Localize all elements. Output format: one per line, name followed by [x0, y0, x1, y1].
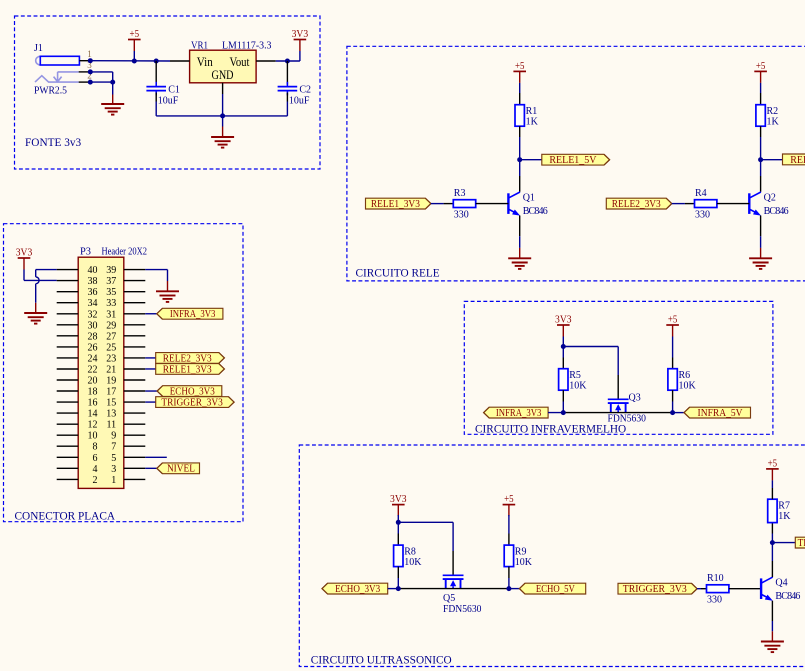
wire gate net vertical — [617, 347, 619, 376]
ground Q1 — [508, 258, 531, 269]
svg-text:R5: R5 — [569, 370, 581, 381]
svg-text:12: 12 — [88, 420, 98, 431]
wire emitter Q1 to ground — [519, 236, 521, 248]
P3 pin 38 stub and number — [57, 276, 98, 287]
P3 pin 19 stub and number — [106, 376, 145, 387]
svg-text:R4: R4 — [695, 188, 707, 199]
svg-text:34: 34 — [88, 298, 98, 309]
P3 pin 20 stub and number — [57, 376, 98, 387]
P3 pin 25 stub and number — [106, 342, 145, 353]
resistor R5 10K — [559, 369, 588, 392]
wire to TRIGGER_5V — [772, 542, 795, 544]
svg-text:RELE2_5V: RELE2_5V — [790, 155, 805, 166]
resistor R6 10K — [668, 369, 697, 392]
junction R6 bottom — [670, 410, 675, 415]
ground Q4 — [761, 642, 784, 653]
svg-text:BC846: BC846 — [775, 591, 800, 602]
wire pin 21 — [145, 368, 155, 370]
wire +5 to R2 — [760, 83, 762, 93]
port RELE2_3V3 connector — [156, 353, 225, 365]
svg-text:INFRA_3V3: INFRA_3V3 — [170, 309, 216, 320]
port ECHO_3V3 connector — [157, 386, 222, 398]
svg-text:3V3: 3V3 — [390, 494, 407, 505]
svg-text:23: 23 — [106, 353, 116, 364]
wire J1 to VR1 Vin — [90, 60, 170, 62]
wire Vout to 3V3 — [276, 60, 300, 62]
wire RELE1_3V3 to R3 — [431, 203, 444, 205]
svg-text:+5: +5 — [756, 61, 766, 72]
resistor R3 330 — [453, 188, 475, 220]
svg-text:30: 30 — [88, 320, 98, 331]
wire to INFRA_5V — [673, 412, 684, 414]
Q3 gate pin — [617, 375, 619, 399]
svg-text:330: 330 — [707, 595, 722, 606]
svg-text:FDN5630: FDN5630 — [608, 414, 647, 425]
svg-text:26: 26 — [88, 342, 98, 353]
ground pin Q2 — [760, 248, 762, 258]
wire R1 to collector — [519, 137, 521, 176]
P3 pin 7 stub and number — [111, 442, 145, 453]
resistor R8 10K — [394, 545, 423, 568]
svg-text:6: 6 — [93, 453, 98, 464]
P3 pin 12 stub and number — [57, 420, 98, 431]
VR1 pin Vin — [170, 60, 190, 62]
svg-text:Q2: Q2 — [764, 193, 776, 204]
P3 pin 18 stub and number — [57, 387, 98, 398]
svg-text:24: 24 — [88, 353, 98, 364]
svg-text:GND: GND — [212, 67, 234, 82]
wire C1 to gnd rail — [155, 102, 157, 116]
junction Q4 collector node — [770, 540, 775, 545]
P3 pin 9 stub and number — [111, 431, 145, 442]
svg-text:R8: R8 — [404, 546, 416, 557]
svg-text:R6: R6 — [679, 370, 691, 381]
svg-text:19: 19 — [106, 376, 116, 387]
connector P3 Header 20X2 — [78, 246, 147, 488]
svg-text:INFRA_5V: INFRA_5V — [698, 408, 744, 419]
svg-text:38: 38 — [88, 276, 98, 287]
C1 pin bottom — [155, 93, 157, 102]
svg-text:ECHO_3V3: ECHO_3V3 — [335, 584, 380, 595]
J1 pin 3 — [79, 60, 93, 72]
wire R2 to collector — [760, 137, 762, 176]
port RELE2_5V — [783, 154, 805, 166]
wire pin 39 — [145, 269, 167, 271]
svg-text:16: 16 — [88, 398, 98, 409]
svg-text:4: 4 — [93, 464, 98, 475]
svg-text:C2: C2 — [299, 85, 311, 96]
svg-text:330: 330 — [695, 209, 710, 220]
R3 pin left — [444, 203, 454, 205]
svg-text:RELE1_3V3: RELE1_3V3 — [371, 199, 420, 210]
svg-text:1K: 1K — [767, 117, 780, 128]
svg-text:1K: 1K — [526, 117, 539, 128]
R10 pin right / base pin Q4 — [729, 588, 761, 590]
wire pin 40 horizontal — [36, 269, 57, 271]
wire +5 to rail — [133, 51, 135, 61]
svg-text:CIRCUITO ULTRASSONICO: CIRCUITO ULTRASSONICO — [311, 654, 452, 666]
P3 pin 22 stub and number — [57, 365, 98, 376]
power +5 FONTE — [128, 29, 141, 51]
svg-text:CIRCUITO INFRAVERMELHO: CIRCUITO INFRAVERMELHO — [475, 423, 626, 435]
svg-text:ECHO_3V3: ECHO_3V3 — [170, 386, 215, 397]
collector pin Q2 — [760, 176, 762, 192]
P3 pin 13 stub and number — [106, 409, 145, 420]
C2 pin top — [286, 61, 288, 85]
R7 pin top — [771, 488, 773, 499]
svg-text:C1: C1 — [168, 85, 180, 96]
capacitor C1 10uF — [146, 82, 179, 107]
wire gate net echo vertical — [452, 522, 454, 551]
wire ECHO_3V3 to R8 node — [388, 588, 400, 590]
svg-text:FDN5630: FDN5630 — [443, 604, 482, 615]
svg-text:10: 10 — [88, 431, 98, 442]
svg-text:33: 33 — [106, 298, 116, 309]
svg-text:Q5: Q5 — [443, 593, 455, 604]
svg-text:14: 14 — [88, 409, 98, 420]
svg-text:TRIGGER_5V: TRIGGER_5V — [798, 538, 805, 549]
junction gnd net — [110, 80, 115, 85]
wire rail down to ground — [222, 116, 224, 127]
svg-text:R9: R9 — [515, 546, 527, 557]
ground FONTE main — [211, 137, 234, 148]
P3 pin 39 stub and number — [106, 265, 145, 276]
junction Q2 collector node — [758, 157, 763, 162]
transistor Q2 BC846 — [749, 192, 788, 217]
junction J1 pin3 — [88, 69, 93, 74]
wire to port RELE1_5V — [520, 159, 542, 161]
svg-text:P3: P3 — [80, 246, 91, 257]
svg-text:3V3: 3V3 — [292, 29, 309, 40]
J1 pin 2 — [79, 70, 92, 82]
svg-text:18: 18 — [88, 387, 98, 398]
mosfet Q3 FDN5630 — [608, 399, 629, 412]
R6 pin top — [672, 358, 674, 369]
Q5 source/drain pins — [398, 588, 509, 590]
svg-text:J1: J1 — [34, 43, 43, 54]
junction R9 bottom — [506, 586, 511, 591]
port RELE1_3V3 — [366, 198, 431, 210]
svg-text:29: 29 — [106, 320, 116, 331]
ground pin Q1 — [519, 248, 521, 258]
R7 pin bottom — [771, 523, 773, 534]
junction Q1 collector node — [517, 157, 522, 162]
wire pin 39 down — [167, 270, 169, 281]
P3 pin 3 stub and number — [111, 464, 145, 475]
P3 pin 14 stub and number — [57, 409, 98, 420]
svg-text:13: 13 — [106, 409, 116, 420]
svg-text:R3: R3 — [454, 188, 466, 199]
section box CIRCUITO ULTRASSONICO — [299, 445, 805, 667]
P3 pin 10 stub and number — [57, 431, 98, 442]
ground connector left — [24, 313, 47, 324]
wire gnd net vertical — [112, 72, 114, 82]
J1 pin 1 — [79, 49, 91, 61]
port ECHO_5V — [519, 583, 585, 595]
emitter pin Q4 — [771, 601, 773, 621]
wire R6 to net — [672, 402, 674, 413]
wire TRIGGER_3V3 to R10 — [697, 588, 701, 590]
wire to R5 — [562, 347, 564, 358]
svg-text:3V3: 3V3 — [16, 247, 33, 258]
wire R5 to net — [562, 402, 564, 413]
svg-text:11: 11 — [107, 420, 117, 431]
P3 pin 27 stub and number — [106, 331, 145, 342]
svg-text:LM1117-3.3: LM1117-3.3 — [222, 40, 272, 51]
svg-text:3: 3 — [111, 464, 116, 475]
P3 pin 24 stub and number — [57, 353, 98, 364]
junction gnd rail — [220, 113, 225, 118]
section box FONTE 3v3 — [15, 16, 321, 169]
P3 pin 1 stub and number — [111, 475, 145, 486]
svg-text:VR1: VR1 — [191, 40, 208, 51]
svg-text:36: 36 — [88, 287, 98, 298]
P3 pin 28 stub and number — [57, 331, 98, 342]
svg-text:1K: 1K — [778, 511, 791, 522]
R8 pin bottom — [397, 567, 399, 578]
wire C2 to gnd rail — [286, 102, 288, 116]
wire to ECHO_5V — [509, 588, 520, 590]
svg-text:39: 39 — [106, 265, 116, 276]
svg-text:RELE1_5V: RELE1_5V — [549, 155, 597, 166]
P3 pin 23 stub and number — [106, 353, 145, 364]
wire to port RELE2_5V — [761, 159, 783, 161]
R9 pin bottom — [508, 567, 510, 578]
junction C1 top — [154, 59, 159, 64]
port RELE2_3V3 — [606, 198, 672, 210]
P3 pin 37 stub and number — [106, 276, 145, 287]
junction J1 pin1 — [88, 58, 93, 63]
P3 pin 31 stub and number — [106, 309, 145, 320]
P3 pin 6 stub and number — [57, 453, 98, 464]
power +5 trigger — [766, 458, 779, 480]
mosfet Q5 FDN5630 — [443, 575, 464, 588]
power 3V3 connector — [16, 247, 33, 269]
port ECHO_3V3 — [322, 583, 388, 595]
wire emitter Q4 to ground — [771, 621, 773, 631]
svg-text:Q4: Q4 — [775, 578, 787, 589]
wire pin 15 — [145, 401, 155, 403]
svg-text:9: 9 — [111, 431, 116, 442]
P3 pin 11 stub and number — [107, 420, 146, 431]
svg-text:CONECTOR PLACA: CONECTOR PLACA — [15, 511, 116, 523]
P3 pin 2 stub and number — [57, 475, 98, 486]
svg-text:15: 15 — [106, 398, 116, 409]
svg-text:22: 22 — [88, 365, 98, 376]
svg-text:3V3: 3V3 — [555, 314, 572, 325]
svg-text:RELE2_3V3: RELE2_3V3 — [163, 353, 212, 364]
transistor Q4 BC846 — [761, 577, 800, 602]
VR1 pin GND — [222, 83, 224, 94]
R6 pin bottom — [672, 390, 674, 401]
port TRIGGER_3V3 — [618, 583, 697, 595]
svg-text:ECHO_5V: ECHO_5V — [536, 584, 575, 595]
R9 pin top — [508, 534, 510, 546]
wire pin2 to gnd net — [90, 81, 112, 83]
emitter pin Q2 — [760, 216, 762, 237]
svg-text:32: 32 — [88, 309, 98, 320]
svg-text:10uF: 10uF — [289, 95, 310, 106]
P3 pin 5 stub and number — [111, 453, 145, 464]
ground pin J1 — [112, 95, 114, 105]
collector pin Q1 — [519, 176, 521, 192]
wire pin 23 — [145, 357, 155, 359]
P3 pin 8 stub and number — [57, 442, 98, 453]
svg-text:10K: 10K — [404, 557, 422, 568]
junction R5 bottom — [561, 410, 566, 415]
port TRIGGER_5V — [795, 537, 805, 549]
R4 pin left — [685, 203, 695, 205]
port INFRA_5V — [684, 407, 751, 419]
svg-text:10K: 10K — [679, 381, 697, 392]
R2 pin bottom — [760, 126, 762, 137]
svg-text:FONTE 3v3: FONTE 3v3 — [25, 137, 82, 149]
wire INFRA_3V3 to R5 node — [548, 412, 565, 414]
P3 pin 26 stub and number — [57, 342, 98, 353]
svg-text:+5: +5 — [668, 314, 678, 325]
svg-text:PWR2.5: PWR2.5 — [34, 85, 67, 96]
section box CONECTOR PLACA — [4, 224, 244, 522]
P3 pin 33 stub and number — [106, 298, 145, 309]
resistor R2 1K — [756, 105, 780, 128]
power +5 Q1 — [513, 61, 526, 83]
C2 pin bottom — [286, 93, 288, 102]
svg-text:RELE1_3V3: RELE1_3V3 — [163, 364, 212, 375]
power 3V3 echo — [390, 494, 407, 516]
svg-text:R1: R1 — [526, 106, 538, 117]
P3 pin 15 stub and number — [106, 398, 145, 409]
port INFRA_3V3 connector — [157, 308, 223, 320]
wire emitter Q2 to ground — [760, 236, 762, 248]
svg-text:BC846: BC846 — [764, 206, 789, 217]
wire gate net echo horizontal — [398, 521, 453, 523]
port RELE1_5V — [542, 154, 610, 166]
Q5 gate pin — [452, 551, 454, 575]
P3 pin 16 stub and number — [57, 398, 98, 409]
svg-text:1: 1 — [111, 475, 116, 486]
wire 3V3 down — [23, 270, 25, 281]
P3 pin 35 stub and number — [106, 287, 145, 298]
ground pin connector left — [35, 303, 37, 313]
svg-text:+5: +5 — [504, 494, 514, 505]
resistor R9 10K — [504, 545, 533, 568]
port RELE1_3V3 connector — [156, 364, 225, 376]
ground pin connector right — [167, 281, 169, 291]
wire +5 to R6 — [672, 337, 674, 358]
svg-text:Header 20X2: Header 20X2 — [102, 246, 148, 257]
ground Q2 — [749, 258, 772, 269]
svg-text:Q1: Q1 — [523, 193, 535, 204]
wire 3V3 to pin 38 — [24, 279, 57, 281]
wire pin3 to gnd net — [90, 71, 112, 73]
svg-text:40: 40 — [88, 265, 98, 276]
wire down to ground — [112, 82, 114, 94]
junction R8 bottom — [396, 586, 401, 591]
R8 pin top — [397, 534, 399, 546]
svg-text:31: 31 — [106, 309, 116, 320]
junction C2 top — [285, 59, 290, 64]
svg-text:10K: 10K — [569, 381, 587, 392]
wire pin 40 to ground with hop — [36, 270, 39, 303]
port NIVEL — [157, 463, 200, 475]
power 3V3 infravermelho — [555, 314, 572, 336]
svg-text:35: 35 — [106, 287, 116, 298]
C1 pin top — [155, 61, 157, 85]
R5 pin top — [562, 358, 564, 369]
P3 pin 21 stub and number — [106, 365, 145, 376]
section box CIRCUITO RELE — [347, 46, 805, 281]
P3 pin 4 stub and number — [57, 464, 98, 475]
svg-text:CIRCUITO RELE: CIRCUITO RELE — [356, 267, 440, 279]
svg-text:37: 37 — [106, 276, 116, 287]
wire ground rail FONTE — [156, 115, 287, 117]
P3 pin 34 stub and number — [57, 298, 98, 309]
resistor R1 1K — [515, 105, 539, 128]
svg-text:+5: +5 — [768, 458, 778, 469]
svg-text:8: 8 — [93, 442, 98, 453]
ground pin Q4 — [771, 631, 773, 641]
regulator VR1 LM1117-3.3 — [190, 40, 272, 83]
ground pin FONTE — [222, 127, 224, 138]
wire R8 to net — [397, 578, 399, 589]
ground connector right — [156, 291, 179, 302]
svg-text:R2: R2 — [767, 106, 779, 117]
svg-text:RELE2_3V3: RELE2_3V3 — [612, 199, 661, 210]
resistor R7 1K — [768, 499, 792, 522]
svg-text:28: 28 — [88, 331, 98, 342]
svg-text:NIVEL: NIVEL — [167, 464, 195, 475]
svg-text:5: 5 — [111, 453, 116, 464]
R5 pin bottom — [562, 390, 564, 401]
svg-text:+5: +5 — [515, 61, 525, 72]
svg-text:20: 20 — [88, 376, 98, 387]
junction R5 top — [561, 344, 566, 349]
R1 pin top — [519, 93, 521, 105]
svg-text:+5: +5 — [130, 29, 140, 40]
junction J1 pin2 — [88, 80, 93, 85]
R4 pin right / base pin Q2 — [717, 203, 749, 205]
svg-text:21: 21 — [106, 365, 116, 376]
wire pin 3 — [145, 467, 157, 469]
svg-text:1: 1 — [87, 49, 92, 59]
wire 3V3 down — [397, 515, 399, 522]
power +5 infravermelho — [666, 314, 679, 336]
power +5 echo — [503, 494, 516, 516]
wire 3V3 down — [299, 51, 301, 61]
section box CIRCUITO INFRAVERMELHO — [464, 301, 773, 434]
svg-text:BC846: BC846 — [523, 206, 548, 217]
svg-text:Q3: Q3 — [629, 392, 641, 403]
Q3 source/drain pins — [563, 412, 672, 414]
P3 pin 17 stub and number — [106, 387, 145, 398]
wire +5 to R9 — [508, 515, 510, 534]
wire GND pin to rail — [222, 94, 224, 116]
capacitor C2 10uF — [278, 82, 311, 107]
power 3V3 FONTE — [292, 29, 309, 51]
resistor R4 330 — [695, 188, 717, 220]
R2 pin top — [760, 93, 762, 105]
svg-text:10uF: 10uF — [158, 95, 179, 106]
collector pin Q4 — [771, 561, 773, 577]
emitter pin Q1 — [519, 216, 521, 237]
connector J1 power jack — [34, 43, 79, 97]
transistor Q1 BC846 — [508, 192, 547, 217]
wire pin 17 — [145, 390, 157, 392]
R3 pin right / base pin Q1 — [476, 203, 509, 205]
P3 pin 30 stub and number — [57, 320, 98, 331]
svg-text:R7: R7 — [778, 500, 790, 511]
svg-text:INFRA_3V3: INFRA_3V3 — [496, 408, 542, 419]
